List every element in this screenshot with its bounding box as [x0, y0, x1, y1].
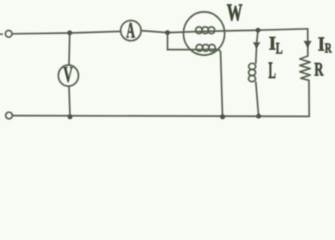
- junction dot bottom of wattmeter drop: [220, 114, 225, 119]
- arrow I_R on R branch: [304, 41, 312, 48]
- node N3 junction dot: [256, 28, 261, 33]
- wire: voltage coil tap from node N2: [168, 33, 196, 50]
- wire: R branch upper with arrow: [307, 29, 309, 56]
- wire: wattmeter to node N3: [225, 29, 258, 32]
- node N2 junction dot: [165, 30, 170, 35]
- edge tick: [0, 33, 2, 35]
- wire: R branch lower: [308, 80, 310, 116]
- arrow I_L on L branch: [253, 42, 260, 48]
- wire: voltmeter branch lower: [69, 86, 70, 117]
- svg-text:A: A: [126, 17, 135, 42]
- node N1 junction dot: [67, 30, 72, 35]
- wire under voltage coil: [196, 48, 215, 50]
- wire: node N2 into wattmeter current coil: [168, 31, 196, 34]
- svg-text:L: L: [268, 58, 276, 83]
- wire top: node N1 to ammeter: [70, 31, 121, 33]
- svg-text:R: R: [325, 41, 332, 56]
- voltmeter V circle: [58, 65, 78, 86]
- svg-text:R: R: [314, 60, 323, 81]
- wire: voltage coil down to bottom wire: [214, 49, 223, 117]
- inductor L coil loops: [249, 63, 256, 69]
- wire: L branch upper with arrow: [256, 30, 258, 63]
- svg-text:L: L: [276, 41, 283, 58]
- wire: L branch lower: [256, 82, 259, 116]
- junction dot bottom of L branch: [256, 114, 261, 119]
- ammeter A circle: [121, 21, 141, 41]
- wire top: T1 to node N1: [12, 32, 70, 35]
- junction dot bottom of voltmeter branch: [68, 115, 73, 120]
- wire: voltmeter branch upper: [68, 33, 71, 65]
- wattmeter W current coil loops: [196, 27, 203, 34]
- wire: node N3 to corner of R branch: [258, 29, 308, 30]
- wattmeter voltage coil loops: [196, 45, 203, 52]
- terminal T2 (bottom-left): [6, 112, 13, 119]
- resistor R zigzag: [300, 56, 310, 80]
- wattmeter U1 case circle: [183, 12, 224, 55]
- wire under current coil: [196, 30, 225, 33]
- wire: ammeter to node N2: [141, 31, 168, 33]
- svg-text:V: V: [63, 62, 73, 87]
- svg-text:W: W: [227, 1, 243, 27]
- wire bottom: [12, 115, 309, 118]
- svg-text:I: I: [318, 35, 325, 56]
- terminal T1 (top-left): [5, 31, 12, 38]
